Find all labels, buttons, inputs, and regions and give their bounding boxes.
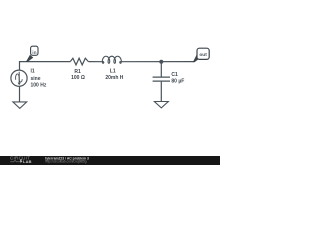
junction node [159, 60, 163, 64]
wire resistor to inductor [88, 61, 104, 63]
label L1 20mh H [105, 69, 123, 81]
svg-text:R1: R1 [74, 69, 81, 75]
svg-text:L1: L1 [110, 69, 116, 75]
footer bar [0, 156, 220, 165]
wire inductor to out [120, 61, 194, 63]
capacitor C1 [153, 77, 170, 81]
label C1 80 uF [171, 72, 184, 84]
svg-text:LAB: LAB [23, 159, 32, 164]
svg-text:80 µF: 80 µF [171, 79, 184, 85]
resistor R1 [70, 58, 88, 65]
wire from source top to node in corner [20, 62, 71, 71]
wire junction to capacitor [160, 62, 162, 77]
svg-text:100 Ω: 100 Ω [71, 75, 85, 81]
svg-text:sine: sine [31, 76, 41, 82]
label R1 100 Ohm [71, 69, 85, 81]
wire source bottom to ground [19, 86, 21, 102]
svg-text:http://circuitlab.com/cnq98t5g: http://circuitlab.com/cnq98t5g [45, 160, 87, 164]
node in flag [26, 46, 38, 62]
ground (right) [154, 102, 168, 108]
svg-text:20mh H: 20mh H [105, 75, 123, 81]
footer text [45, 157, 89, 164]
svg-text:in: in [32, 50, 36, 56]
svg-text:C1: C1 [171, 72, 178, 78]
current source I1 [11, 70, 27, 86]
svg-text:I1: I1 [31, 69, 35, 75]
footer logo CIRCUIT LAB [10, 156, 32, 164]
inductor L1 [102, 56, 121, 63]
svg-text:out: out [199, 52, 207, 58]
node out flag [193, 48, 209, 62]
ground (left) [13, 102, 27, 109]
label I1 sine 100 Hz [31, 69, 47, 89]
svg-text:100 Hz: 100 Hz [31, 83, 47, 89]
wire capacitor to ground [160, 82, 162, 102]
